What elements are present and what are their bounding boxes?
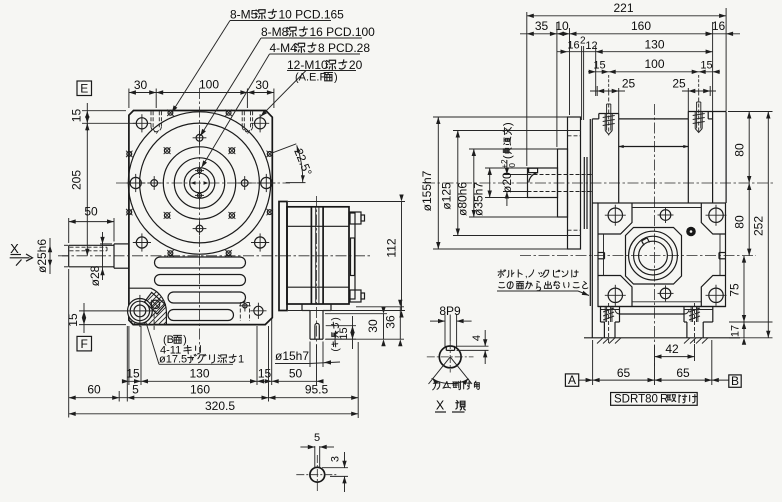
keyway detail slot lines (314, 446, 316, 468)
output shaft keyway slot (314, 326, 316, 340)
svg-text:35: 35 (535, 19, 549, 33)
bottom-left bracket hatched (129, 288, 167, 324)
right boss bolt (698, 92, 700, 134)
flange circle ø155 (128, 112, 270, 254)
svg-text:B: B (731, 374, 739, 388)
X view cam angle lines (429, 357, 451, 384)
svg-text:5: 5 (314, 432, 320, 444)
keyway detail circle (310, 467, 325, 482)
svg-text:E: E (80, 82, 88, 96)
svg-text:8-M8: 8-M8 (261, 25, 289, 39)
motor connector top (350, 212, 361, 224)
flange small holes top/bottom center (660, 210, 671, 221)
front body hidden hole bottom-right (239, 303, 241, 322)
motor body (287, 207, 349, 304)
PCD28 M4 hole bottom (198, 193, 202, 197)
svg-text:16 PCD.100: 16 PCD.100 (309, 25, 375, 39)
svg-text:320.5: 320.5 (205, 399, 235, 413)
PCD100 hole bottom (196, 225, 203, 232)
svg-text:): ) (331, 317, 342, 320)
input shaft (68, 245, 70, 266)
dim 15 bottom-left (79, 310, 124, 312)
surface hatching (597, 338, 603, 344)
svg-text:16: 16 (567, 40, 579, 52)
output flange disc ø155 (568, 117, 581, 249)
motor slot plate right (351, 238, 355, 276)
output shaft ø35 (528, 168, 558, 198)
side dims right side 80-80-75-17-252 (728, 111, 773, 113)
side view centerline vertical (654, 104, 656, 366)
svg-text:ø125: ø125 (440, 182, 454, 210)
svg-text:160: 160 (190, 382, 210, 396)
dim row1 15-130-15-50 (128, 326, 130, 385)
dim 30 output shaft (325, 313, 387, 315)
M10 corner hole bottom-left (136, 237, 147, 248)
dim 50 input shaft top (68, 218, 70, 243)
svg-text:3: 3 (330, 456, 342, 462)
circle ø60 boss (174, 158, 224, 208)
motor body section lines (287, 225, 349, 227)
PCD100 hole left (151, 180, 158, 187)
body inner verticals (618, 119, 620, 203)
svg-text:8P9: 8P9 (439, 304, 461, 318)
svg-text:8-M5: 8-M5 (230, 8, 258, 22)
svg-text:100: 100 (199, 78, 219, 92)
output bore circles (629, 231, 678, 280)
right boss and top cover edge (687, 112, 689, 119)
svg-text:ø20: ø20 (500, 172, 514, 193)
svg-text:130: 130 (189, 367, 209, 381)
svg-text:16: 16 (712, 19, 726, 33)
svg-text:15: 15 (338, 327, 350, 339)
svg-text:15: 15 (700, 60, 712, 72)
PCD28 M4 hole top (198, 169, 202, 173)
side dim row 221 (526, 12, 528, 166)
svg-text:10 PCD.165: 10 PCD.165 (278, 8, 344, 22)
svg-text:): ) (334, 72, 338, 84)
front view body outline (129, 111, 272, 325)
svg-text:20: 20 (349, 58, 363, 72)
svg-text:95.5: 95.5 (305, 382, 329, 396)
motor connector bottom (350, 290, 361, 302)
side view centerline horizontal (424, 182, 774, 184)
bore keyway notch (642, 238, 650, 245)
PCD100 diagonal holes (M8 X-marked) (164, 148, 169, 153)
svg-text:A: A (568, 373, 576, 387)
svg-text:50: 50 (84, 205, 98, 219)
datum A box (565, 374, 578, 386)
svg-text:50: 50 (289, 367, 303, 381)
M10 corner hole top-right (255, 118, 266, 129)
front view centerline horizontal (116, 182, 290, 184)
dim 42 bottom (654, 345, 656, 362)
svg-text:15: 15 (593, 60, 605, 72)
knock pin black dot (686, 227, 696, 237)
svg-text:(: ( (331, 348, 342, 352)
center bore ø35 (184, 168, 215, 199)
svg-text:ø28: ø28 (88, 265, 102, 286)
flange bottom and legs (598, 306, 726, 308)
svg-text:221: 221 (613, 1, 633, 15)
center boss octagon (626, 228, 682, 285)
body section line (619, 146, 689, 148)
svg-text:75: 75 (728, 283, 742, 297)
mounting flange square (598, 203, 726, 307)
svg-text:5: 5 (132, 382, 139, 396)
X view dim 4 depth (456, 345, 489, 347)
small hole right of fins (254, 306, 263, 315)
X view circle (439, 346, 461, 368)
svg-text:25: 25 (672, 77, 686, 91)
svg-text:12: 12 (585, 40, 597, 52)
svg-text:12-M10: 12-M10 (287, 58, 328, 72)
svg-text:(: ( (502, 155, 514, 159)
dia dimension labels left of side view (433, 116, 568, 118)
svg-text:X: X (436, 399, 445, 413)
label dia28 rotated (100, 243, 112, 245)
input shaft keyway hidden lines (70, 246, 108, 248)
circle ø140 (140, 123, 260, 243)
leg top steps (601, 309, 620, 311)
svg-text:X: X (10, 241, 19, 256)
svg-text:80: 80 (733, 215, 747, 229)
bracket diamond block (145, 292, 166, 314)
svg-text:205: 205 (70, 170, 84, 190)
flange recess lines (632, 207, 701, 209)
angle dim 22.5 (273, 144, 297, 153)
label key length rotated (331, 317, 342, 351)
svg-text:25: 25 (622, 77, 636, 91)
leg bolts (608, 303, 610, 344)
PCD100 hole top (196, 134, 203, 141)
dim 112 motor vertical (288, 201, 405, 203)
PCD165 M5 X-marked holes (267, 152, 272, 157)
X view keyway slot lines (444, 315, 446, 348)
svg-text:ø35h7: ø35h7 (472, 182, 486, 216)
left boss (598, 114, 600, 119)
M10 corner hole bottom-right (255, 237, 266, 248)
svg-text:80: 80 (733, 143, 747, 157)
dim 36 output shaft (356, 306, 404, 308)
svg-text:): ) (502, 122, 514, 126)
note bolts knock pins (498, 270, 506, 278)
svg-text:,: , (525, 269, 528, 280)
side dim row 25-25 (618, 88, 620, 114)
svg-text:130: 130 (644, 37, 664, 51)
dim 65-65 bottom with datums (592, 340, 594, 385)
output hub ø80 (558, 149, 568, 217)
M10 side hole right (261, 177, 272, 188)
X view cam angle text (433, 381, 440, 390)
svg-text:65: 65 (617, 366, 631, 380)
svg-text:42: 42 (665, 342, 679, 356)
mounting surface line (584, 337, 740, 339)
svg-text:ø15h7: ø15h7 (275, 349, 309, 363)
circle ø80 spigot (163, 147, 235, 219)
svg-text:22.5°: 22.5° (291, 146, 315, 178)
F datum box (77, 336, 92, 351)
motor centerline vertical (316, 196, 318, 348)
shaft edge extension lines (309, 342, 311, 368)
svg-text:4: 4 (471, 335, 483, 341)
input shaft centerline (58, 255, 370, 257)
side body outline (591, 119, 593, 338)
right leg (683, 307, 685, 323)
PCD28 section arrows left-right (191, 181, 196, 185)
svg-text:ø17.5: ø17.5 (159, 354, 187, 366)
svg-text:10: 10 (555, 19, 569, 33)
svg-text:ø155h7: ø155h7 (420, 170, 434, 211)
X view centerlines (427, 356, 474, 358)
output shaft base lines (301, 304, 303, 311)
hidden tapped hole top-left (E face) (150, 111, 152, 126)
svg-text:30: 30 (255, 78, 269, 92)
svg-text:60: 60 (87, 382, 101, 396)
svg-text:17: 17 (730, 325, 742, 337)
left leg (600, 307, 602, 323)
PCD100 hole right (241, 180, 248, 187)
side dim row 35-10-160-16 (556, 22, 558, 147)
bracket hidden line (153, 314, 155, 332)
flange corner pads (598, 203, 632, 234)
center hole ø20 (190, 173, 210, 193)
cooling fins (155, 257, 246, 268)
svg-text:15: 15 (70, 109, 84, 123)
svg-text:15: 15 (258, 367, 272, 381)
svg-text:30: 30 (366, 319, 380, 333)
svg-text:65: 65 (676, 366, 690, 380)
dim row3 320.5 (68, 402, 70, 418)
svg-text:36: 36 (384, 315, 398, 329)
side dim row 16-2-12-130 (581, 46, 583, 120)
dim row2 60-5-160-95.5 (68, 269, 70, 402)
side dim row 15-100-15 (608, 75, 610, 92)
X view keyway notch (446, 349, 454, 351)
svg-text:): ) (183, 334, 187, 346)
svg-text:30: 30 (134, 78, 148, 92)
svg-text:112: 112 (385, 238, 399, 257)
shaft key seat (529, 168, 538, 172)
svg-text:100: 100 (644, 57, 664, 71)
disc inner lines (583, 157, 585, 229)
svg-text:8 PCD.28: 8 PCD.28 (318, 41, 370, 55)
through hole ø20 dashed (528, 174, 593, 176)
dim 15 keyway length (326, 325, 356, 327)
label dia25h6 rotated (64, 244, 68, 246)
disc PCD125 hole sections dashed (568, 130, 581, 132)
keyway detail dim 3 (322, 467, 348, 469)
keyway detail centerlines (296, 474, 338, 476)
dim 205 left vertical (86, 123, 88, 256)
dim 15 top-left vertical (82, 110, 126, 112)
side view bore centerline (520, 255, 756, 257)
left boss bolt (608, 92, 610, 136)
M10 side hole left (130, 177, 141, 188)
dim 30-100-30 top (128, 89, 130, 109)
svg-text:160: 160 (631, 19, 651, 33)
svg-text:15: 15 (66, 313, 80, 327)
svg-text:ø80h6: ø80h6 (456, 182, 470, 216)
svg-text:SDRT80: SDRT80 (614, 394, 658, 406)
datum B box (729, 375, 741, 387)
motor mounting plate (279, 202, 287, 311)
svg-text:F: F (81, 337, 88, 351)
M10 corner hole top-left (136, 118, 147, 129)
front view centerline vertical (199, 88, 201, 352)
svg-text:252: 252 (752, 216, 766, 236)
motor right cap (349, 213, 355, 299)
title box SDRT80 R mount (611, 393, 698, 406)
svg-text:15: 15 (126, 367, 140, 381)
bracket bearing circle (127, 299, 152, 324)
output shaft (309, 311, 311, 340)
E datum box (77, 81, 92, 96)
svg-text:1: 1 (238, 354, 244, 366)
flange pad bolt holes (608, 208, 622, 222)
flange edge notches (598, 252, 605, 254)
svg-text:0: 0 (508, 163, 517, 168)
svg-text:ø25h6: ø25h6 (35, 239, 49, 273)
svg-text:4-M4: 4-M4 (270, 41, 298, 55)
